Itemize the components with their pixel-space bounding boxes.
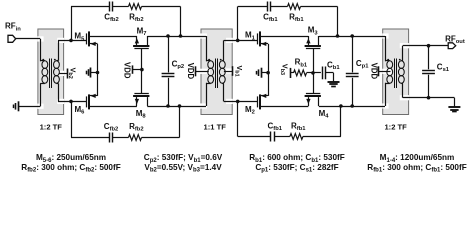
wire M2 drain to M4 source: [260, 106, 309, 108]
capacitor Cfb1 bottom: [270, 132, 272, 142]
resistor Rfb2 bottom: [129, 135, 142, 141]
resistor Rfb2 top: [129, 4, 142, 10]
wire TF2 secondary bottom to M2 gate: [222, 83, 224, 85]
wire TF2 secondary top to M1 gate: [222, 60, 224, 62]
svg-text:VDD: VDD: [186, 63, 195, 80]
transistor M7: [133, 45, 149, 47]
wire TF3 secondary bottom to output ground: [401, 83, 403, 85]
wire Cb1 to ground: [326, 72, 334, 74]
transformer TF1 core: [49, 59, 51, 89]
Vb3 supply bar: [290, 68, 292, 78]
wire VDD stub to gates: [133, 69, 142, 71]
node feedback1 top: [336, 34, 340, 38]
transformer TF1 primary winding: [42, 61, 48, 69]
svg-text:VDD: VDD: [123, 62, 132, 79]
wire M1 drain to M3 source: [260, 36, 309, 38]
wire feedback2 bottom left drop: [71, 101, 73, 137]
capacitor Cp2: [168, 36, 170, 72]
node Cp1 top: [350, 34, 354, 38]
wire feedback1 bottom left drop: [237, 101, 239, 136]
VDD supply bar TF3: [378, 66, 380, 76]
wire Rb1 to bias node to Cb1: [307, 72, 321, 74]
VDD supply bar TF2: [195, 66, 197, 76]
ground at Cb1: [328, 81, 340, 83]
transformer TF3 footprint box: [383, 29, 409, 115]
resistor Rb1: [294, 70, 307, 76]
Vb2 center-tap stub: [59, 73, 68, 75]
Vb1 center-tap stub: [224, 71, 233, 73]
wire source ground stub: [91, 72, 98, 74]
wire TF1 secondary top to M5 gate: [56, 60, 58, 62]
node gate bias stage2: [140, 68, 144, 72]
transformer TF3 secondary winding: [398, 61, 404, 69]
node Cp1 bottom: [350, 104, 354, 108]
transistor M6: [86, 96, 88, 107]
wire RFin to TF1 primary top: [16, 38, 40, 40]
wire TF1 primary bottom to input ground: [40, 83, 42, 106]
ground at output: [448, 106, 460, 108]
wire M5 drain to M7 source: [89, 36, 137, 38]
capacitor Cfb1 top: [267, 2, 269, 12]
node Cp2 bottom: [166, 104, 170, 108]
svg-text:1:2 TF: 1:2 TF: [40, 122, 63, 131]
transformer TF2 primary winding: [208, 61, 214, 69]
wire M8 drain to TF2 primary bottom: [147, 106, 206, 108]
ground at M1/M2 source: [261, 68, 263, 78]
node TF2-bottom feedback junction: [236, 100, 240, 104]
svg-text:VDD: VDD: [369, 63, 378, 80]
transistor M8: [133, 95, 149, 97]
resistor Rfb1 bottom: [290, 134, 303, 140]
wire feedback1 top left drop: [237, 7, 239, 41]
wire M3/M4 gate bias: [313, 49, 315, 94]
transistor M5: [86, 33, 88, 44]
transformer TF3 primary winding: [387, 61, 393, 69]
node Cs1 bottom: [427, 96, 431, 100]
capacitor Cs1: [428, 46, 430, 70]
transformer TF2 core: [215, 59, 217, 89]
node Cp2 top: [166, 34, 170, 38]
transformer TF3 polarity dots: [387, 59, 389, 61]
node feedback2 top: [179, 34, 183, 38]
wire feedback2 bottom run: [71, 137, 110, 139]
svg-text:1:1 TF: 1:1 TF: [204, 122, 227, 131]
wire source ground stub stage1: [261, 72, 268, 74]
resistor Rfb1 top: [288, 4, 301, 10]
port RFin: [8, 35, 16, 42]
VDD center-tap stub TF2: [195, 71, 209, 73]
capacitor Cp1: [352, 36, 354, 72]
transistor M4: [305, 95, 321, 97]
node TF1-bottom feedback junction: [69, 100, 73, 104]
transformer TF2 polarity dots: [208, 59, 210, 61]
wire TF3 secondary top to RFout: [401, 60, 403, 62]
svg-text:1:2 TF: 1:2 TF: [384, 122, 407, 131]
wire M3 drain to TF3 primary top: [319, 36, 385, 38]
VDD center-tap stub TF3: [379, 71, 391, 73]
transformer TF2 secondary winding: [219, 61, 225, 69]
node TF1-top feedback junction: [69, 39, 73, 43]
transistor M2: [257, 96, 259, 107]
wire feedback2 top left drop: [71, 7, 73, 41]
wire M7/M8 gate bias: [141, 49, 143, 94]
wire M6 drain to M8 source: [89, 106, 137, 108]
wire feedback2 top run: [71, 6, 110, 8]
wire M7 drain to TF2 primary top: [147, 36, 206, 38]
transistor M1: [257, 33, 259, 44]
node Cs1 top: [427, 44, 431, 48]
wire M5/M6 common source: [97, 44, 99, 96]
node feedback2 bottom: [178, 104, 182, 108]
transformer TF2 footprint box: [201, 29, 232, 115]
VDD supply bar stage2: [132, 65, 134, 73]
port RFout: [448, 43, 456, 49]
wire to output ground: [454, 98, 456, 107]
node gate bias stage1: [311, 71, 315, 75]
wire notches TF2: [201, 33, 207, 38]
wire M1/M2 common source: [268, 44, 270, 96]
capacitor Cfb2 top: [109, 2, 111, 12]
transformer TF1 footprint box: [38, 29, 64, 115]
transformer TF1 secondary winding: [54, 61, 60, 69]
wire notches TF3: [382, 33, 388, 38]
ground at M5/M6 source: [90, 68, 92, 78]
node M1/M2 source: [266, 71, 270, 75]
wire notches TF1: [37, 36, 43, 41]
node TF2-top feedback junction: [236, 39, 240, 43]
transistor M3: [305, 45, 321, 47]
transformer TF1 polarity dots: [42, 59, 44, 61]
wire M4 drain to TF3 primary bottom: [319, 106, 385, 108]
node M5/M6 source: [96, 71, 100, 75]
capacitor Cfb2 bottom: [109, 133, 111, 143]
wire feedback1 bottom run: [238, 136, 271, 138]
wire Vb3 to Rb1: [290, 72, 293, 74]
wire TF1 secondary bottom to M6 gate: [56, 83, 58, 85]
transformer TF3 core: [394, 59, 396, 89]
ground at input side: [18, 101, 20, 111]
node feedback1 bottom: [339, 104, 343, 108]
capacitor Cb1: [322, 67, 324, 80]
wire feedback1 top run: [238, 6, 268, 8]
